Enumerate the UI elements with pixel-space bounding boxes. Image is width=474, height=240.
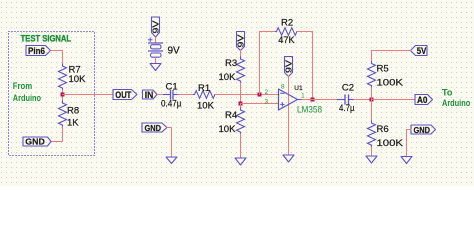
junction output node (R5/R6/A0): [370, 98, 374, 102]
svg-text:Pin6: Pin6: [28, 46, 45, 56]
supply flag 9V (R3): [237, 32, 245, 51]
resistor R4: [237, 108, 245, 134]
flag A0: [415, 95, 433, 105]
flag GND (middle): [142, 123, 167, 132]
svg-text:9V: 9V: [168, 46, 181, 57]
svg-text:To: To: [442, 87, 453, 97]
svg-text:R1: R1: [198, 83, 210, 94]
wire 9V flag to R3: [240, 51, 242, 58]
svg-text:R3: R3: [225, 58, 237, 69]
svg-text:0.47µ: 0.47µ: [161, 99, 182, 110]
resistor R6: [368, 121, 376, 147]
svg-text:IN: IN: [145, 90, 154, 100]
resistor R2: [276, 28, 298, 36]
svg-text:4.7µ: 4.7µ: [339, 103, 355, 114]
wire R8 to GND flag: [51, 127, 63, 142]
wire 9V flag to battery: [155, 37, 157, 43]
svg-text:8: 8: [281, 83, 285, 90]
svg-text:100K: 100K: [377, 78, 404, 89]
annotation box TEST SIGNAL (dashed): [9, 32, 95, 156]
wire IN to C1: [158, 94, 164, 96]
flag GND (right): [411, 125, 436, 134]
wire C1 to R1: [178, 94, 194, 96]
ground (R4): [235, 158, 246, 165]
op-amp U1 triangle: [279, 89, 298, 110]
wire R1 to op-amp pin 2 (crosses R3/R4 column): [216, 94, 279, 96]
wire Pin6 to R7: [51, 51, 63, 65]
capacitor C2: [338, 99, 345, 101]
wire R2 to output node: [298, 32, 313, 100]
svg-text:1K: 1K: [67, 118, 79, 129]
svg-text:GND: GND: [414, 125, 431, 135]
junction output/R2 node: [311, 98, 315, 102]
wire junction to R4: [240, 104, 242, 109]
ground (battery): [150, 64, 161, 71]
svg-text:OUT: OUT: [115, 90, 131, 100]
svg-text:10K: 10K: [219, 72, 237, 83]
ground (R6): [366, 156, 377, 163]
svg-text:9V: 9V: [284, 59, 293, 73]
wire junction to OUT flag: [63, 94, 114, 96]
svg-text:R5: R5: [377, 64, 389, 75]
svg-text:U1: U1: [294, 85, 303, 92]
ground (op-amp): [283, 155, 294, 162]
wire node to A0 flag: [372, 99, 416, 101]
op-amp output stub: [298, 99, 303, 101]
svg-text:10K: 10K: [69, 74, 87, 85]
op-amp plus mark: [281, 103, 284, 106]
svg-text:TEST SIGNAL: TEST SIGNAL: [21, 33, 72, 43]
svg-text:10K: 10K: [219, 124, 237, 135]
svg-text:R2: R2: [281, 18, 293, 29]
wire R6 to ground: [371, 147, 373, 156]
wire op-amp power rail (pin 8 to pin 4, to ground): [288, 77, 290, 156]
svg-text:C1: C1: [166, 82, 178, 93]
svg-text:Arduino: Arduino: [442, 98, 471, 108]
resistor R8: [59, 101, 67, 127]
wire R5 to output node: [371, 88, 373, 100]
svg-text:R6: R6: [377, 124, 389, 135]
flag GND (inside box): [23, 137, 51, 146]
svg-text:R8: R8: [67, 106, 79, 117]
junction node (R7/R8/OUT): [61, 93, 65, 97]
flag Pin6: [26, 46, 51, 56]
wire op-amp output to C2: [302, 99, 338, 101]
junction bias node: [239, 102, 243, 106]
resistor R1: [194, 91, 216, 99]
svg-text:9V: 9V: [151, 20, 160, 34]
svg-text:100K: 100K: [377, 138, 404, 149]
svg-text:R4: R4: [225, 110, 237, 121]
svg-text:Arduino: Arduino: [13, 93, 42, 103]
resistor R3: [237, 57, 245, 83]
svg-text:GND: GND: [25, 137, 45, 147]
svg-text:10K: 10K: [197, 100, 215, 111]
supply flag 9V (op-amp): [285, 57, 293, 77]
supply flag 5V: [411, 46, 428, 56]
wire feedback vertical (to R2): [260, 32, 276, 95]
svg-text:47K: 47K: [278, 35, 295, 46]
svg-text:9V: 9V: [236, 34, 245, 48]
junction feedback node: [258, 93, 262, 97]
flag IN: [143, 90, 158, 99]
svg-text:5V: 5V: [417, 46, 427, 56]
battery (9V): [149, 42, 163, 44]
svg-text:From: From: [13, 81, 32, 91]
svg-text:LM358: LM358: [297, 104, 322, 114]
supply flag 9V (battery): [152, 17, 160, 37]
wire bias junction to op-amp pin 3: [241, 103, 279, 105]
ground (middle): [166, 157, 177, 164]
op-amp minus mark: [281, 92, 284, 94]
wire GND flag to ground (right): [407, 130, 412, 157]
svg-text:A0: A0: [417, 95, 428, 105]
wire R3 to bias junction (crosses signal wire): [240, 83, 242, 104]
wire 5V flag to R5: [372, 51, 411, 62]
wire GND flag to ground: [168, 128, 172, 158]
wire node to R6: [371, 100, 373, 122]
resistor R5: [368, 62, 376, 88]
wire battery to ground: [155, 58, 157, 64]
svg-text:C2: C2: [342, 82, 354, 93]
wire R4 to ground: [240, 134, 242, 158]
wire R7 to junction: [62, 90, 64, 101]
svg-text:GND: GND: [145, 123, 162, 133]
wire C2 to output node: [354, 99, 372, 101]
resistor R7: [59, 64, 67, 90]
flag OUT: [113, 90, 137, 100]
battery plus mark: [149, 38, 152, 41]
capacitor C1: [164, 94, 171, 96]
ground (right): [401, 157, 412, 164]
